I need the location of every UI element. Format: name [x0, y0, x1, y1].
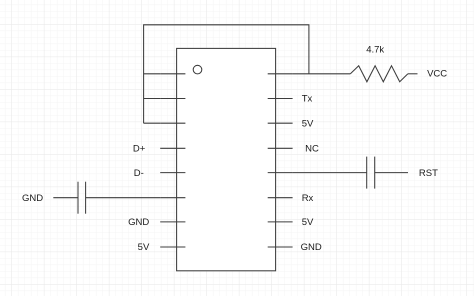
label 5V (right pin 7)	[302, 217, 314, 228]
label GND (right pin 8)	[301, 242, 322, 253]
label D-	[134, 168, 144, 179]
wire: resistor to VCC	[408, 73, 418, 75]
IC chip body	[177, 48, 276, 270]
svg-text:Tx: Tx	[302, 94, 313, 105]
pin left 2	[160, 98, 185, 100]
wire: top loop from right pin row up and over to left vertical	[144, 25, 309, 123]
svg-text:NC: NC	[305, 144, 319, 155]
label 5V (left pin 8)	[138, 242, 150, 253]
pin right 3 (5V)	[268, 122, 293, 124]
wire: stub left row 3	[144, 122, 161, 124]
pin left 1	[160, 73, 185, 75]
label Rx	[302, 193, 314, 204]
pin left 8 (5V)	[160, 246, 185, 248]
svg-text:GND: GND	[128, 217, 149, 228]
label GND (left pin 7)	[128, 217, 149, 228]
pin right 6 (Rx)	[268, 197, 293, 199]
wire: capacitor to left pin 6	[86, 197, 161, 199]
wire: stub left row 1	[144, 73, 161, 75]
capacitor C1 (GND side)	[78, 182, 86, 214]
resistor R1 4.7k	[350, 66, 408, 82]
svg-text:VCC: VCC	[427, 68, 447, 79]
pin right 5 (RST net)	[268, 172, 293, 174]
pin-1 indicator circle	[193, 65, 202, 74]
svg-text:GND: GND	[22, 193, 43, 204]
net label VCC	[427, 68, 447, 79]
label Tx	[302, 94, 313, 105]
label 5V (right pin 3)	[302, 118, 314, 129]
wire: right pin 5 to capacitor	[293, 172, 367, 174]
pin right 7 (5V)	[268, 221, 293, 223]
svg-text:5V: 5V	[302, 217, 314, 228]
pin left 7 (GND)	[160, 221, 185, 223]
svg-text:GND: GND	[301, 242, 322, 253]
svg-text:D-: D-	[134, 168, 144, 179]
svg-text:Rx: Rx	[302, 193, 314, 204]
svg-text:RST: RST	[419, 168, 438, 179]
wire: capacitor to RST	[375, 172, 408, 174]
value label 4.7k	[366, 44, 384, 55]
pin left 6 (GND net)	[160, 197, 185, 199]
net label RST	[419, 168, 438, 179]
pin right 8 (GND)	[268, 246, 293, 248]
wire: right pin 1 to resistor	[293, 73, 351, 75]
svg-text:5V: 5V	[302, 118, 314, 129]
svg-text:5V: 5V	[138, 242, 150, 253]
pin left 3	[160, 122, 185, 124]
pin right 1 (to VCC resistor)	[268, 73, 293, 75]
pin left 5 (D-)	[160, 172, 185, 174]
pin right 4 (NC)	[268, 147, 293, 149]
label NC	[305, 144, 319, 155]
pin right 2 (Tx)	[268, 98, 293, 100]
svg-text:4.7k: 4.7k	[366, 44, 384, 55]
wire: stub left row 2	[144, 98, 161, 100]
capacitor C2 (RST side)	[367, 157, 375, 189]
svg-text:D+: D+	[133, 144, 146, 155]
net label GND	[22, 193, 43, 204]
pin left 4 (D+)	[160, 147, 185, 149]
label D+	[133, 144, 146, 155]
wire: GND to capacitor	[53, 197, 78, 199]
